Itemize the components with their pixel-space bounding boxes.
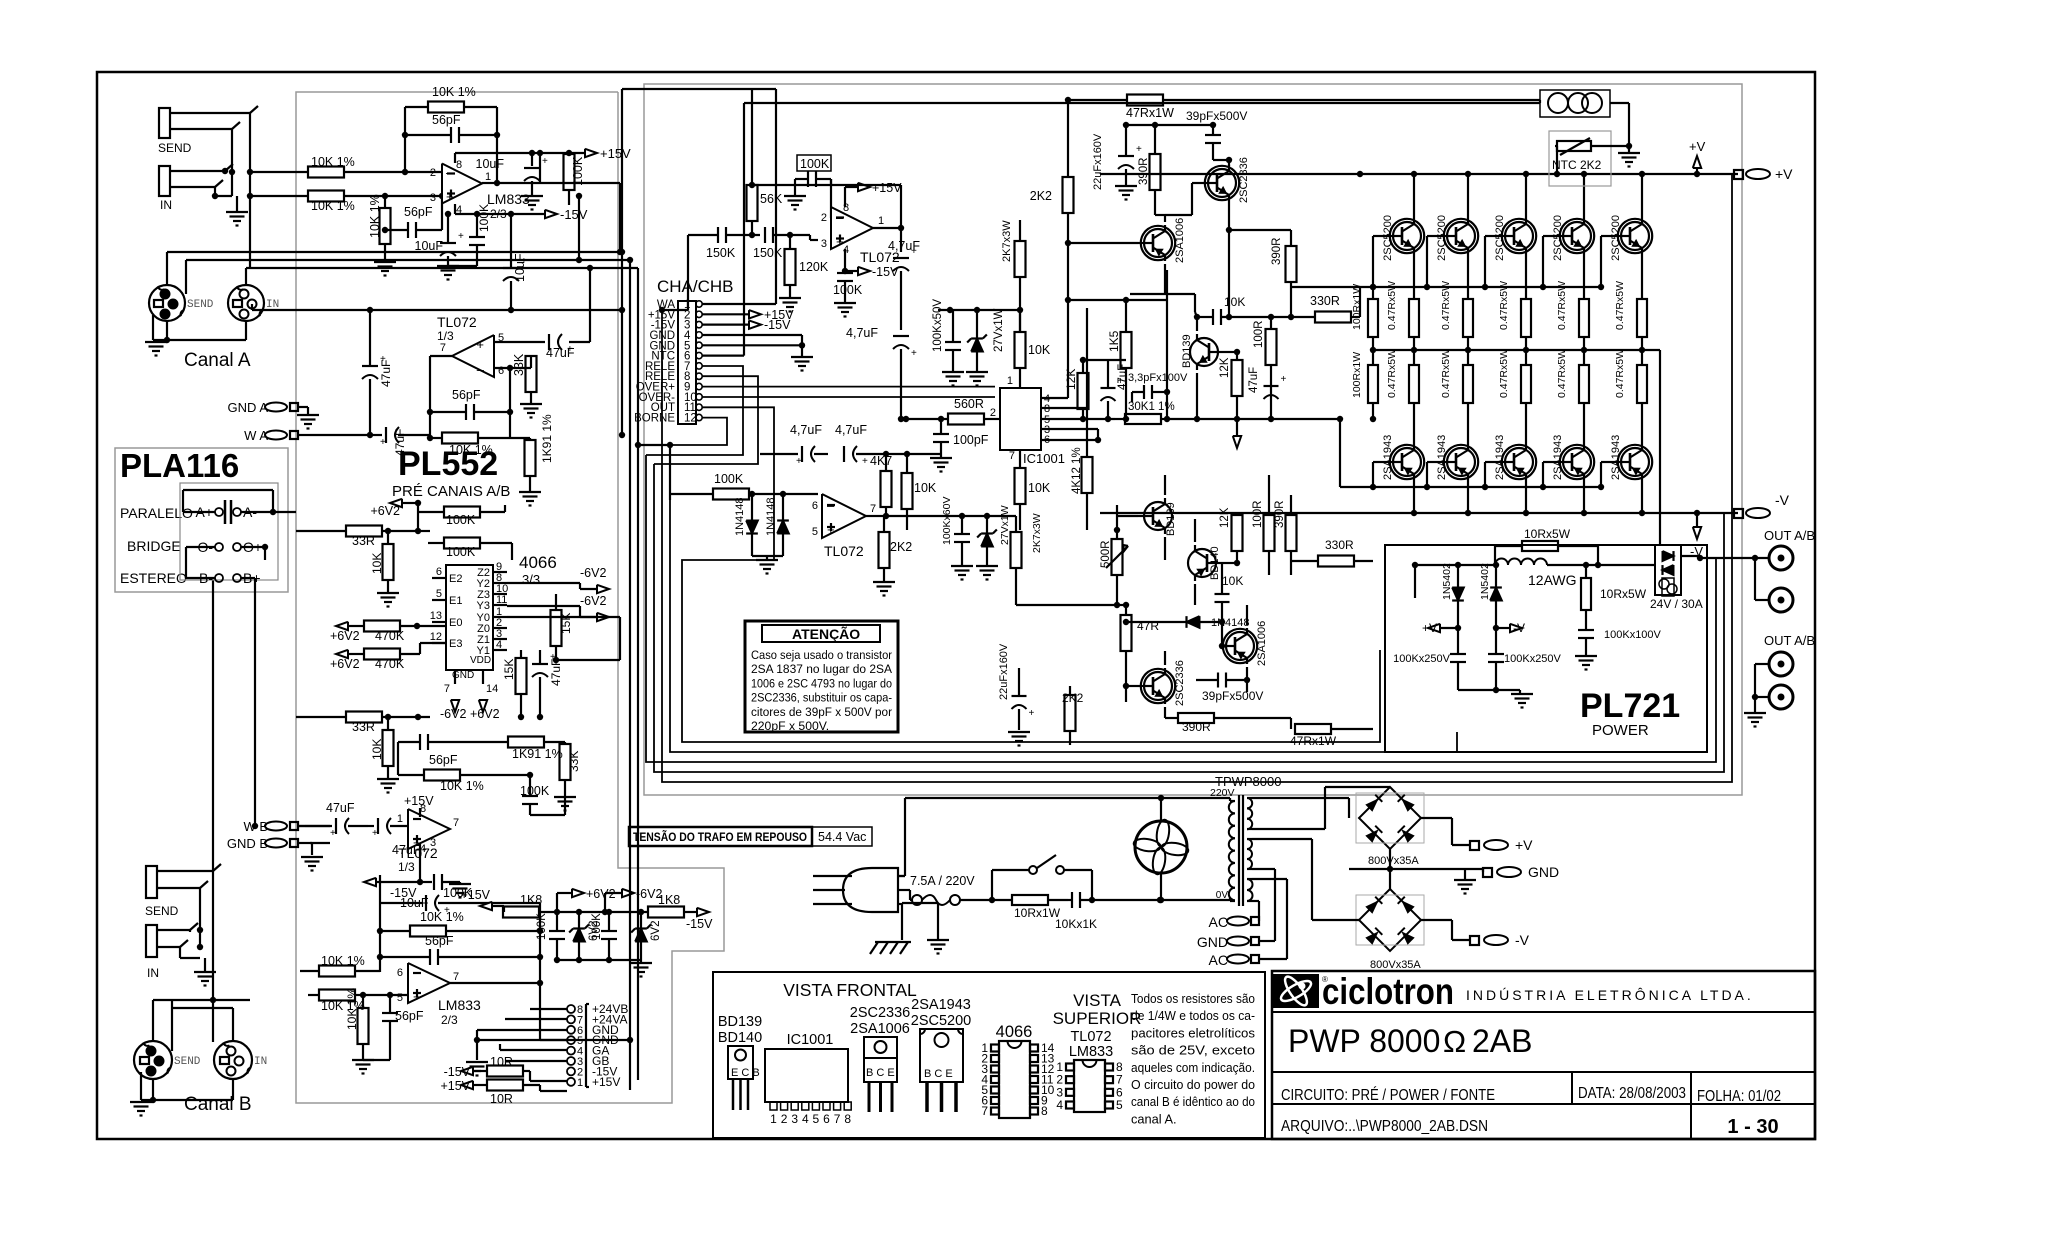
label PARALELO (120, 505, 193, 521)
svg-text:IC1001: IC1001 (1023, 451, 1065, 466)
op-amp TL072 B (397, 803, 459, 874)
svg-text:1/3: 1/3 (398, 860, 415, 874)
svg-text:IC1001: IC1001 (787, 1032, 834, 1048)
svg-text:2SA1943: 2SA1943 (1436, 435, 1448, 480)
svg-text:5: 5 (813, 1112, 820, 1126)
svg-text:0.47Rx5W: 0.47Rx5W (1386, 281, 1398, 330)
svg-text:100R: 100R (1253, 321, 1265, 349)
capacitor 150K a (688, 227, 760, 260)
label Canal A (184, 350, 251, 371)
svg-text:OUT A/B: OUT A/B (1764, 633, 1815, 648)
ground Canal B (130, 1102, 152, 1116)
svg-text:+6V2: +6V2 (370, 504, 400, 518)
wire +V rail (1100, 171, 1738, 177)
svg-text:GND: GND (1197, 934, 1228, 950)
tensao do trafo box (629, 827, 872, 846)
svg-text:6: 6 (498, 365, 504, 377)
wire left bundle v1 (646, 455, 1716, 762)
2SC2336/2SA1006 package (850, 1005, 910, 1112)
transformer TPWP8000 (1229, 795, 1253, 906)
svg-text:SUPERIOR: SUPERIOR (1053, 1009, 1142, 1028)
ground 22uF vas (1115, 186, 1137, 200)
svg-text:+: + (550, 652, 556, 663)
ground 27V (966, 372, 988, 386)
PL552 section box (296, 92, 724, 1103)
terminal -V ps (1470, 932, 1530, 948)
svg-text:10Rx5W: 10Rx5W (1524, 527, 1571, 541)
terminal -6V2 b (507, 594, 609, 621)
wire left bundle v3 (662, 174, 1738, 782)
label VISTA FRONTAL (783, 980, 917, 1000)
svg-text:B C E: B C E (866, 1067, 895, 1079)
svg-text:2K7x3W: 2K7x3W (1001, 220, 1013, 262)
svg-text:7: 7 (440, 342, 446, 354)
resistor 100Rx1W b (1351, 350, 1378, 422)
wire 2SA1006 drv (1219, 605, 1247, 692)
svg-text:12: 12 (684, 413, 697, 425)
svg-text:10uF: 10uF (476, 157, 505, 171)
jack SEND B (145, 864, 221, 918)
svg-text:33K: 33K (512, 353, 526, 376)
mains plug (813, 868, 898, 912)
svg-text:+6V2: +6V2 (330, 657, 360, 671)
svg-text:100Kx250V: 100Kx250V (1504, 653, 1562, 665)
svg-text:+: + (911, 348, 917, 359)
wire 2SC2336 top (1165, 157, 1232, 320)
svg-text:1N4148: 1N4148 (765, 497, 777, 536)
svg-text:2SC2336, substituir os capa-: 2SC2336, substituir os capa- (751, 691, 892, 705)
svg-text:1K8: 1K8 (658, 893, 680, 907)
wire bridge1 +V (1421, 818, 1470, 845)
resistor 470K a (348, 621, 446, 644)
svg-text:47Rx1W: 47Rx1W (1126, 106, 1174, 120)
svg-text:0.47Rx5W: 0.47Rx5W (1556, 349, 1568, 398)
transistor 2SC5200 #4 (1540, 171, 1594, 299)
resistor 10K 1% A-in1 (250, 155, 400, 178)
resistor 10Rx1W mains (992, 895, 1068, 920)
capacitor 47uF bias2 (1248, 367, 1287, 399)
svg-text:0.47Rx5W: 0.47Rx5W (1614, 349, 1626, 398)
wire XLR B gnd (141, 1072, 233, 1103)
svg-text:2SA1943: 2SA1943 (1382, 435, 1394, 480)
resistor 2K7x3W a (1001, 220, 1026, 313)
thermistor NTC 2K2 (1552, 138, 1632, 177)
svg-text:GND A: GND A (228, 400, 269, 415)
svg-text:1: 1 (485, 171, 491, 183)
wire IC pins right (1041, 300, 1115, 443)
terminal -6V2 a (507, 566, 609, 593)
svg-text:1006 e 2SC 4793 no lugar do: 1006 e 2SC 4793 no lugar do (751, 676, 892, 690)
terminal +V arrow (1689, 139, 1706, 177)
ground bridges (1454, 880, 1476, 894)
svg-text:-6V2: -6V2 (580, 594, 606, 608)
transistor 2SA1006 vas (1138, 218, 1186, 263)
XLR SEND A (149, 285, 214, 321)
transistor 2SA1943 #2 (1424, 435, 1478, 516)
svg-text:BD139: BD139 (1181, 334, 1193, 368)
svg-text:6: 6 (823, 1112, 830, 1126)
wire W A (310, 89, 625, 438)
capacitor 4,7uF pwr1 (888, 239, 920, 330)
svg-text:54.4 Vac: 54.4 Vac (818, 830, 866, 844)
resistor 33K B (560, 742, 582, 795)
capacitor 100K reg1 (536, 912, 565, 963)
capacitor 10Kx1K (1055, 892, 1163, 931)
resistor 10K 1% A-gnd (368, 193, 391, 262)
svg-text:0.47Rx5W: 0.47Rx5W (1614, 281, 1626, 330)
capacitor 39pFx500V top (1186, 109, 1247, 160)
svg-text:BRIDGE: BRIDGE (127, 538, 181, 554)
svg-text:canal B é idêntico ao do: canal B é idêntico ao do (1131, 1094, 1255, 1109)
svg-text:560R: 560R (954, 397, 984, 411)
svg-text:100K: 100K (591, 913, 603, 940)
svg-text:+15V: +15V (600, 146, 631, 161)
capacitor 100Kx250V b (1488, 628, 1562, 693)
terminal AC 1 (1209, 914, 1259, 930)
NTC box (1549, 131, 1611, 186)
wire pin4 -15V (455, 204, 545, 214)
wire diode gnd (752, 556, 783, 560)
svg-text:+: + (458, 231, 464, 242)
wire RELE 7 (646, 366, 743, 455)
svg-text:aqueles com indicação.: aqueles com indicação. (1131, 1060, 1255, 1075)
wire vas bus 2 (1167, 418, 1291, 420)
svg-text:0.47Rx5W: 0.47Rx5W (1440, 349, 1452, 398)
terminal -15V pwr (858, 265, 899, 279)
svg-text:-6V2: -6V2 (580, 566, 606, 580)
label TPWP8000 (1215, 774, 1281, 789)
svg-text:1: 1 (1007, 375, 1013, 387)
resistor 1K91 1% B (470, 737, 565, 762)
svg-text:DATA: 28/08/2003: DATA: 28/08/2003 (1578, 1085, 1686, 1102)
svg-text:E C B: E C B (731, 1067, 760, 1079)
svg-text:30K1 1%: 30K1 1% (1128, 401, 1175, 413)
wire TL072A out (427, 356, 452, 415)
PLA116 section box (115, 448, 288, 592)
label PL721 (1580, 687, 1680, 739)
ground GND B (301, 857, 323, 871)
svg-text:1N5402: 1N5402 (1479, 563, 1491, 600)
connector 8pin PL552 (567, 1002, 628, 1089)
svg-text:+: + (372, 828, 378, 839)
resistor 100R drv (1252, 475, 1275, 575)
svg-text:120K: 120K (799, 260, 829, 274)
svg-text:2SA1006: 2SA1006 (1256, 621, 1268, 666)
svg-text:12: 12 (430, 631, 442, 643)
svg-text:POWER: POWER (1592, 722, 1649, 739)
svg-text:8: 8 (456, 159, 462, 171)
page number (1727, 1116, 1778, 1138)
label CHA/CHB (657, 277, 734, 296)
resistor 0.47Rx5W top#1 (1386, 281, 1419, 353)
resistor 390R drv (1274, 495, 1297, 575)
svg-text:+: + (1281, 374, 1287, 385)
svg-text:SEND: SEND (187, 299, 214, 311)
svg-text:3/3: 3/3 (522, 572, 540, 587)
wire chab NTC (702, 103, 1540, 356)
ground 10uF A2 (437, 266, 459, 280)
svg-text:AC: AC (1209, 952, 1228, 968)
svg-text:1K91 1%: 1K91 1% (540, 414, 554, 463)
circuito row (1281, 1087, 1495, 1104)
svg-text:10K: 10K (1222, 574, 1243, 588)
capacitor 56pF Bin (363, 992, 424, 1060)
resistor 100Rx1W a (1351, 284, 1378, 353)
ground 100K pin4 (834, 303, 856, 317)
svg-text:7: 7 (1009, 450, 1015, 462)
ground 10K 33R-A (377, 593, 399, 607)
fan (1133, 819, 1189, 875)
svg-text:+: + (446, 189, 454, 204)
svg-text:são de 25V, exceto: são de 25V, exceto (1131, 1043, 1255, 1058)
capacitor 47uF WB2 (368, 818, 421, 857)
wire pwr fb2 (831, 185, 901, 228)
svg-text:+: + (796, 456, 802, 467)
svg-text:1K91 1%: 1K91 1% (512, 747, 563, 761)
capacitor 56pF Bfb (380, 931, 543, 965)
svg-text:56pF: 56pF (452, 388, 481, 402)
resistor 0.47Rx5W top#5 (1614, 281, 1647, 353)
ground 100K B (530, 795, 576, 815)
wire left bundle v2 (654, 464, 1738, 772)
resistor 56K (747, 182, 783, 235)
arquivo row (1281, 1118, 1488, 1135)
transistor 2SC2336 top (1202, 157, 1250, 203)
svg-text:PWP 8000: PWP 8000 (1288, 1023, 1440, 1059)
resistor 2K7x3W b (1011, 513, 1121, 608)
svg-text:1K8: 1K8 (520, 893, 542, 907)
resistor 100K A1 (564, 150, 586, 205)
jack RCA 4 (1752, 664, 1793, 709)
terminal +6V2 top (370, 499, 421, 518)
svg-text:22uFx160V: 22uFx160V (998, 643, 1010, 700)
svg-text:PRÉ CANAIS A/B: PRÉ CANAIS A/B (392, 483, 510, 500)
svg-text:47uF: 47uF (1248, 367, 1260, 393)
svg-text:7.5A / 220V: 7.5A / 220V (910, 874, 975, 888)
svg-text:IN: IN (254, 1056, 267, 1068)
ground 100K boxed (784, 179, 806, 210)
svg-text:SEND: SEND (145, 904, 179, 918)
pad +V (1734, 166, 1793, 182)
capacitor 10uF B (380, 875, 540, 917)
resistor 10K 1% B2 (398, 742, 533, 793)
label 4066 (519, 553, 557, 587)
svg-text:10K: 10K (1028, 343, 1051, 357)
terminal AC 3 (1209, 952, 1287, 968)
resistor 10K 33R-B (370, 714, 394, 779)
svg-text:100Rx1W: 100Rx1W (1351, 352, 1363, 398)
terminal W B (243, 819, 305, 834)
capacitor 100K boxed (795, 155, 831, 218)
svg-text:+15V: +15V (872, 181, 902, 195)
svg-text:100Kx100V: 100Kx100V (1604, 629, 1662, 641)
svg-text:-15V: -15V (686, 917, 713, 931)
transistor 2SC5200 #2 (1424, 171, 1478, 299)
svg-text:12K: 12K (1219, 357, 1231, 378)
data row (1578, 1085, 1686, 1102)
svg-text:10K: 10K (914, 481, 937, 495)
svg-text:BORNE: BORNE (634, 413, 675, 425)
terminal GND ps (1483, 864, 1559, 880)
wires connector gnd (474, 1030, 567, 1061)
resistor 100K pwrin (638, 442, 818, 500)
terminal -15V chab (702, 318, 791, 332)
wire relay out (1681, 555, 1770, 561)
svg-text:7: 7 (981, 1104, 988, 1118)
wire OUT 11 (682, 407, 1380, 742)
svg-text:10R: 10R (490, 1055, 513, 1069)
svg-text:+15V: +15V (404, 794, 434, 808)
svg-text:2SC5200: 2SC5200 (1436, 215, 1448, 261)
svg-text:800Vx35A: 800Vx35A (1370, 959, 1421, 971)
resistor 10K 1% TL072A (427, 433, 510, 458)
2SA1943/2SC5200 package (911, 997, 971, 1112)
ground 22uF drv (1008, 732, 1030, 746)
resistor 10K 1% A-in2 (247, 191, 442, 214)
svg-text:56K: 56K (760, 192, 783, 206)
capacitor 10uF A3 (503, 211, 527, 310)
svg-text:TL072: TL072 (398, 845, 438, 861)
wire chab WA (622, 89, 776, 304)
svg-text:4066: 4066 (996, 1023, 1033, 1041)
jack RCA 3 (1755, 652, 1793, 676)
capacitor 10K bd140 (1215, 563, 1244, 622)
svg-text:47Rx1W: 47Rx1W (1290, 734, 1337, 748)
svg-text:10K: 10K (1028, 481, 1051, 495)
wire chab gnd (702, 335, 805, 357)
capacitor 100Kx250V a (1393, 628, 1466, 690)
svg-text:2SC5200: 2SC5200 (911, 1013, 971, 1029)
wire pwr pin4 (842, 249, 858, 274)
svg-text:SEND: SEND (158, 141, 192, 155)
terminal +6V2 470Ka (330, 622, 360, 643)
fuse link box (1540, 90, 1629, 117)
svg-text:2SA1943: 2SA1943 (1552, 435, 1564, 480)
svg-text:+: + (380, 354, 386, 365)
svg-text:100K: 100K (571, 156, 585, 186)
svg-text:5: 5 (1116, 1098, 1123, 1112)
svg-text:+: + (567, 344, 573, 355)
ground 2K2 pwr2 (873, 582, 895, 596)
svg-text:10Rx5W: 10Rx5W (1600, 587, 1647, 601)
svg-text:BD139: BD139 (718, 1014, 762, 1030)
ground connector (466, 1062, 488, 1076)
ground chab (791, 357, 813, 371)
svg-text:+6V2: +6V2 (470, 707, 500, 721)
transistor 2SC5200 #3 (1482, 171, 1536, 299)
svg-text:56pF: 56pF (432, 113, 461, 127)
svg-text:-15V: -15V (764, 318, 791, 332)
svg-text:Y3: Y3 (477, 600, 490, 612)
diode 1N4148 p1 (734, 491, 758, 556)
svg-text:–: – (477, 362, 485, 377)
svg-text:3: 3 (821, 238, 827, 250)
PL721/power section box (644, 84, 1742, 795)
svg-text:4K7: 4K7 (870, 454, 892, 468)
resistor 560R (903, 397, 1000, 425)
resistor 2K2 pwr2 (879, 516, 913, 582)
resistor 10R a (487, 1055, 567, 1081)
resistor 33K TL072A (494, 353, 537, 404)
op-amp LM833 A (430, 159, 530, 221)
svg-text:2: 2 (430, 167, 436, 179)
svg-text:15K: 15K (502, 659, 516, 680)
svg-text:2: 2 (990, 407, 996, 419)
terminal GND B (227, 836, 305, 851)
resistor 10K ic-top (1015, 310, 1051, 388)
svg-text:-15V: -15V (560, 207, 588, 222)
svg-text:2K7x3W: 2K7x3W (1031, 513, 1043, 553)
svg-text:56pF: 56pF (425, 934, 454, 948)
svg-text:2SA1943: 2SA1943 (1494, 435, 1506, 480)
resistor 12K bias1 (1064, 357, 1089, 422)
capacitor 100K B (520, 775, 550, 815)
wire bias vert (1291, 286, 1360, 288)
svg-text:2K2: 2K2 (890, 540, 912, 554)
IC 4066 3/3 (430, 561, 509, 695)
svg-text:4,7uF: 4,7uF (846, 326, 878, 340)
svg-text:PL721: PL721 (1580, 687, 1680, 725)
resistor 2K2 drv (1062, 686, 1084, 745)
label Canal B (184, 1094, 252, 1115)
svg-text:1N4148: 1N4148 (734, 497, 746, 536)
svg-text:®: ® (1322, 975, 1328, 984)
resistor 100R bias (1253, 317, 1277, 422)
svg-text:330R: 330R (1325, 538, 1354, 552)
svg-text:7: 7 (453, 971, 459, 983)
4066 package (981, 1023, 1054, 1118)
resistor 12K bias2 (1219, 352, 1243, 422)
TL072/LM833 package (1053, 991, 1142, 1112)
ground 120K (779, 298, 801, 312)
ground reg (630, 963, 652, 977)
resistor 10K 1% Bin1 (300, 954, 383, 977)
svg-text:100Kx250V: 100Kx250V (1393, 653, 1451, 665)
svg-text:22uFx160V: 22uFx160V (1092, 133, 1104, 190)
title block grid (1272, 971, 1815, 1139)
svg-text:TL072: TL072 (824, 543, 864, 559)
capacitor 10K bd139 (1197, 295, 1291, 325)
svg-text:10K: 10K (1224, 295, 1245, 309)
svg-text:4: 4 (802, 1112, 809, 1126)
svg-text:TENSÃO DO TRAFO EM REPOUSO: TENSÃO DO TRAFO EM REPOUSO (633, 829, 807, 844)
company name (1466, 987, 1754, 1003)
svg-text:-6V2: -6V2 (440, 707, 466, 721)
transistor 2SA1006 drv (1220, 621, 1268, 666)
wire pl721 in (1412, 562, 1418, 598)
resistor 10K ic-bot (1015, 450, 1051, 530)
ground 10uF A1 (521, 196, 543, 210)
svg-text:ciclotron: ciclotron (1322, 971, 1454, 1012)
svg-text:47uF: 47uF (326, 801, 355, 815)
transistor 2SA1943 #3 (1482, 435, 1536, 516)
svg-text:1 - 30: 1 - 30 (1727, 1116, 1778, 1138)
resistor 100K 4066-2 (428, 538, 512, 561)
svg-text:canal A.: canal A. (1131, 1111, 1177, 1126)
wire BD140 (1195, 519, 1240, 605)
ground Canal A (145, 340, 167, 356)
svg-text:100K: 100K (446, 513, 476, 527)
IC1001 package (765, 1032, 851, 1126)
capacitor 10uF A2 (415, 211, 465, 266)
label OUT A/B 1 (1764, 528, 1815, 543)
svg-text:1: 1 (577, 1077, 583, 1089)
resistor 47Rx1W top (1126, 95, 1174, 121)
svg-text:CHA/CHB: CHA/CHB (657, 277, 734, 296)
svg-text:14: 14 (486, 683, 498, 695)
svg-text:GND: GND (452, 670, 474, 681)
capacitor 47uF 4066 (532, 650, 563, 720)
